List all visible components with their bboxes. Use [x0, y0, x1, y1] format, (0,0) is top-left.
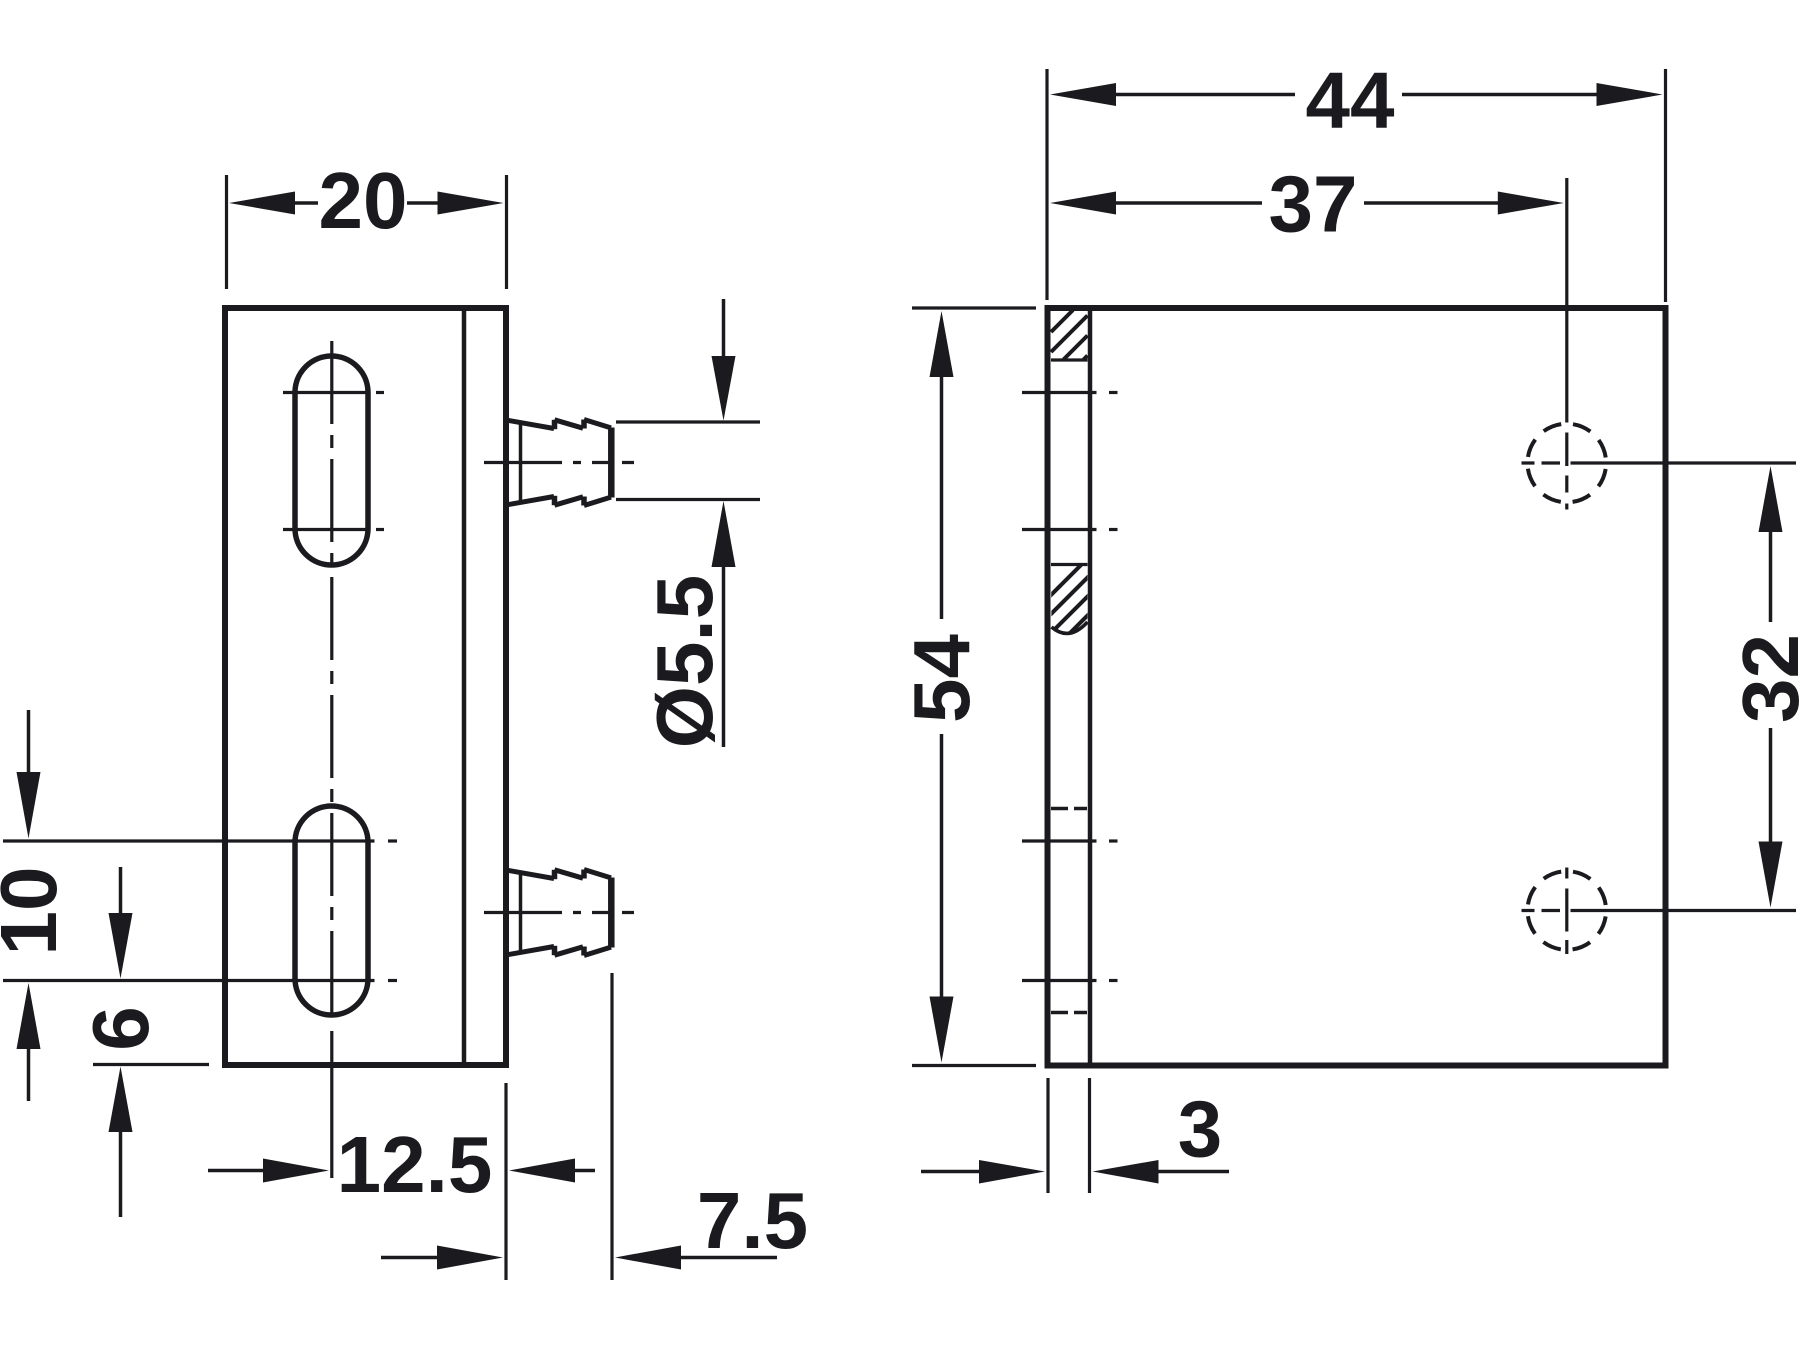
svg-text:32: 32 — [1726, 634, 1800, 723]
hatch patch 1 diagonals — [1051, 310, 1088, 360]
peg 2 horizontal centerline — [484, 911, 634, 914]
dim 12.5: extension line right — [504, 1083, 507, 1280]
slot centerline extension to 12.5 dim — [330, 1031, 333, 1178]
peg 1 (upper barbed dowel) — [506, 420, 611, 506]
dim 54: arrows — [940, 375, 944, 619]
hole 2 vertical centerline — [1565, 868, 1568, 955]
dim 32: arrows — [1769, 530, 1773, 622]
peg 1 horizontal centerline — [484, 461, 634, 464]
slot 1 centerline marks across edge strip — [1022, 393, 1118, 530]
dim 10: arrows — [27, 710, 31, 774]
svg-text:54: 54 — [897, 634, 986, 723]
dim Ø5.5: extension lines — [616, 422, 760, 500]
svg-text:44: 44 — [1306, 56, 1395, 145]
dim 37: arrows — [1113, 201, 1262, 205]
slot vertical centerline — [330, 341, 333, 1018]
plate front outline — [1048, 308, 1666, 1066]
plate front-face inner edge line — [462, 311, 467, 1062]
svg-text:7.5: 7.5 — [697, 1176, 808, 1265]
hatch patch 2 boundary line — [1051, 563, 1088, 566]
slot 2 hidden edges (dashed) in edge strip — [1051, 809, 1088, 1013]
hole 1 vertical centerline / 37-dim extension — [1565, 178, 1568, 510]
peg 2 (lower barbed dowel) — [506, 870, 611, 956]
slot 2 centerline marks across edge strip — [1022, 841, 1118, 981]
dim 44: arrows — [1113, 93, 1295, 97]
dim 7.5: extension line at peg tip — [610, 973, 613, 1280]
dim 12.5: arrows — [208, 1169, 267, 1173]
hole 1 (upper, hidden circle) — [1528, 424, 1607, 503]
hole 2 (lower, hidden circle) — [1528, 871, 1607, 950]
slot 2 (lower oblong hole) — [295, 806, 368, 1015]
dim 6: arrows — [119, 867, 123, 915]
dim 3: arrows — [921, 1170, 983, 1174]
dim Ø5.5: arrows — [722, 299, 726, 358]
slot 2 bottom arc centerline / 10/6-dim extension line — [3, 979, 397, 982]
plate thickness inner line (3mm) — [1088, 311, 1093, 1063]
6-dim extension line at plate bottom — [93, 1063, 209, 1066]
svg-text:Ø5.5: Ø5.5 — [640, 575, 729, 748]
dim 44: extension lines — [1047, 69, 1666, 302]
hatch patch 1 boundary line — [1051, 358, 1088, 361]
svg-text:37: 37 — [1269, 160, 1358, 249]
plate body outline (side view) — [225, 308, 506, 1065]
dim 7.5: arrows — [381, 1256, 439, 1260]
svg-text:6: 6 — [76, 1006, 165, 1051]
dim 3: extension lines — [1048, 1078, 1090, 1193]
dim 54: extension lines — [912, 308, 1036, 1066]
svg-text:10: 10 — [0, 867, 73, 956]
slot 1 bottom arc centerline — [283, 528, 384, 531]
slot 1 top arc centerline — [283, 391, 384, 394]
hole 2 horizontal centerline to 32-dim — [1522, 909, 1797, 912]
svg-text:12.5: 12.5 — [337, 1120, 493, 1209]
hole 1 horizontal centerline to 32-dim — [1522, 461, 1797, 464]
svg-text:20: 20 — [319, 156, 408, 245]
hatch patch 2 break arc — [1052, 622, 1088, 633]
slot 1 (upper oblong hole) — [295, 356, 368, 565]
dim 20: extension lines — [227, 175, 507, 289]
svg-text:3: 3 — [1178, 1085, 1223, 1174]
dim 20: dimension line + arrows — [293, 201, 441, 205]
slot 2 top arc centerline / 10-dim extension line — [3, 839, 397, 842]
